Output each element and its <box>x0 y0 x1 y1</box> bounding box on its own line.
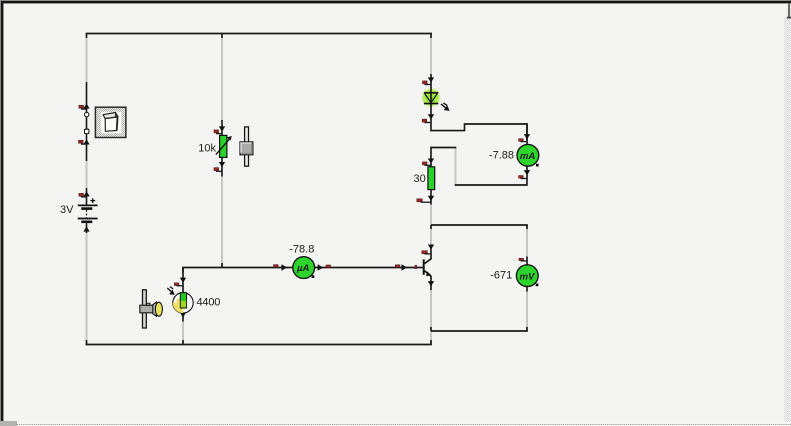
svg-text:3V: 3V <box>60 204 74 216</box>
svg-text:-7.88: -7.88 <box>489 150 514 162</box>
svg-text:mA: mA <box>520 151 536 162</box>
svg-text:-78.8: -78.8 <box>289 243 314 255</box>
svg-text:µA: µA <box>296 263 310 274</box>
svg-text:4400: 4400 <box>197 296 221 308</box>
svg-text:30: 30 <box>414 173 426 185</box>
svg-text:10k: 10k <box>198 142 216 154</box>
svg-text:mV: mV <box>520 271 537 282</box>
svg-text:-671: -671 <box>490 270 512 282</box>
